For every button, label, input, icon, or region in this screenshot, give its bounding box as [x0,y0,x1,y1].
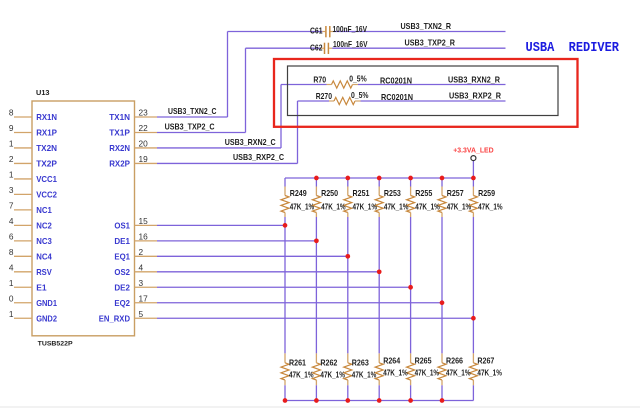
svg-text:R255: R255 [415,188,432,198]
svg-text:9: 9 [9,123,14,133]
svg-text:EQ2: EQ2 [114,298,130,308]
svg-text:1: 1 [9,309,14,319]
svg-text:3: 3 [139,278,144,288]
svg-text:+3.3VA_LED: +3.3VA_LED [453,145,494,154]
svg-text:VCC1: VCC1 [36,174,57,184]
svg-text:NC4: NC4 [36,252,52,262]
svg-text:4: 4 [139,263,144,273]
svg-text:TX2P: TX2P [36,159,57,169]
svg-text:USB3_RXP2_C: USB3_RXP2_C [233,152,284,162]
svg-text:R270: R270 [316,91,333,101]
svg-text:47K_1%: 47K_1% [446,367,471,377]
svg-text:DE2: DE2 [114,282,130,292]
svg-text:100nF_16V: 100nF_16V [333,39,368,49]
svg-text:23: 23 [139,108,149,118]
svg-text:RX1P: RX1P [36,128,57,138]
svg-text:R262: R262 [320,358,337,368]
svg-text:100nF_16V: 100nF_16V [333,24,368,34]
svg-text:R263: R263 [352,358,369,368]
svg-text:0: 0 [9,293,14,303]
svg-text:2: 2 [139,247,144,257]
svg-text:USB3_TXN2_R: USB3_TXN2_R [401,21,452,31]
svg-text:4: 4 [9,263,14,273]
svg-text:8: 8 [9,247,14,257]
svg-text:47K_1%: 47K_1% [383,367,408,377]
svg-text:R253: R253 [384,188,401,198]
svg-text:R251: R251 [353,188,370,198]
svg-text:R265: R265 [415,355,432,365]
svg-text:47K_1%: 47K_1% [289,370,314,380]
svg-text:1: 1 [9,170,14,180]
svg-text:15: 15 [139,216,149,226]
svg-text:TX1P: TX1P [109,128,130,138]
svg-text:GND2: GND2 [36,313,57,323]
svg-text:47K_1%: 47K_1% [320,370,345,380]
svg-text:17: 17 [139,293,149,303]
svg-text:RC0201N: RC0201N [381,92,413,102]
svg-text:TUSB522P: TUSB522P [38,340,73,347]
svg-text:RX2N: RX2N [109,143,130,153]
svg-text:USBA REDIVER: USBA REDIVER [526,40,620,56]
svg-text:19: 19 [139,154,149,164]
svg-text:20: 20 [139,139,149,149]
svg-text:RSV: RSV [36,267,52,277]
svg-text:R249: R249 [290,188,307,198]
svg-text:47K_1%: 47K_1% [290,202,315,212]
svg-text:4: 4 [9,216,14,226]
svg-text:EN_RXD: EN_RXD [99,313,130,323]
svg-text:R267: R267 [477,355,494,365]
svg-text:USB3_TXP2_C: USB3_TXP2_C [165,121,215,131]
svg-text:U13: U13 [36,90,50,97]
svg-text:R266: R266 [446,355,463,365]
svg-text:8: 8 [9,108,14,118]
svg-text:R257: R257 [447,188,464,198]
svg-text:RX1N: RX1N [36,112,57,122]
svg-text:EQ1: EQ1 [114,252,130,262]
svg-text:C62: C62 [310,42,323,52]
svg-text:47K_1%: 47K_1% [415,202,440,212]
svg-text:3: 3 [9,185,14,195]
svg-text:OS2: OS2 [114,267,130,277]
svg-text:E1: E1 [36,282,47,292]
svg-text:R259: R259 [478,188,495,198]
svg-text:47K_1%: 47K_1% [352,370,377,380]
svg-text:TX1N: TX1N [109,112,130,122]
svg-text:2: 2 [9,154,14,164]
svg-text:7: 7 [9,201,14,211]
svg-text:1: 1 [9,139,14,149]
svg-text:USB3_RXN2_C: USB3_RXN2_C [225,137,276,147]
svg-text:47K_1%: 47K_1% [384,202,409,212]
svg-text:USB3_TXP2_R: USB3_TXP2_R [405,37,456,47]
svg-text:VCC2: VCC2 [36,190,57,200]
svg-text:47K_1%: 47K_1% [447,202,472,212]
svg-text:5: 5 [139,309,144,319]
svg-text:R250: R250 [321,188,338,198]
svg-text:USB3_RXP2_R: USB3_RXP2_R [449,91,501,101]
svg-text:R70: R70 [313,75,326,85]
svg-text:RC0201N: RC0201N [380,75,412,85]
svg-text:1: 1 [9,278,14,288]
svg-text:47K_1%: 47K_1% [415,367,440,377]
svg-text:16: 16 [139,232,149,242]
svg-text:OS1: OS1 [114,221,130,231]
svg-text:47K_1%: 47K_1% [321,202,346,212]
svg-text:47K_1%: 47K_1% [353,202,378,212]
svg-text:R261: R261 [289,358,306,368]
svg-text:RX2P: RX2P [109,159,130,169]
svg-text:NC2: NC2 [36,221,52,231]
svg-text:USB3_TXN2_C: USB3_TXN2_C [168,106,217,116]
svg-text:0_5%: 0_5% [351,90,369,100]
svg-text:NC3: NC3 [36,236,52,246]
svg-text:R264: R264 [383,355,400,365]
svg-text:TX2N: TX2N [36,143,57,153]
svg-text:NC1: NC1 [36,205,52,215]
svg-text:22: 22 [139,123,149,133]
svg-text:C61: C61 [310,26,323,36]
svg-text:DE1: DE1 [114,236,130,246]
svg-text:6: 6 [9,232,14,242]
svg-text:47K_1%: 47K_1% [477,367,502,377]
svg-text:GND1: GND1 [36,298,57,308]
svg-text:47K_1%: 47K_1% [478,202,503,212]
svg-text:USB3_RXN2_R: USB3_RXN2_R [448,74,500,84]
svg-text:0_5%: 0_5% [349,73,367,83]
